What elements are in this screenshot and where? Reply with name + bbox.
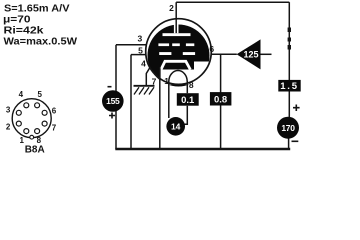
svg-text:8: 8: [189, 80, 194, 90]
svg-text:170: 170: [281, 123, 295, 133]
svg-text:3: 3: [6, 106, 11, 115]
svg-text:7: 7: [152, 77, 157, 87]
svg-text:125: 125: [243, 50, 258, 60]
svg-text:4: 4: [141, 59, 146, 69]
svg-text:1: 1: [19, 136, 24, 145]
svg-text:3: 3: [138, 33, 143, 43]
svg-text:7: 7: [52, 124, 57, 133]
svg-text:6: 6: [209, 44, 214, 54]
svg-text:0.1: 0.1: [181, 95, 195, 106]
svg-text:4: 4: [19, 90, 24, 99]
svg-text:155: 155: [106, 96, 120, 106]
svg-text:5: 5: [138, 46, 143, 56]
svg-text:1: 1: [164, 76, 169, 86]
svg-text:Wa=max.0.5W: Wa=max.0.5W: [4, 35, 78, 47]
svg-text:2: 2: [6, 123, 11, 132]
svg-text:14: 14: [171, 122, 181, 132]
svg-text:6: 6: [52, 106, 57, 115]
svg-text:0.8: 0.8: [214, 94, 227, 105]
svg-text:5: 5: [37, 90, 42, 99]
svg-text:1.5: 1.5: [280, 81, 299, 92]
svg-text:2: 2: [169, 3, 174, 13]
svg-text:B8A: B8A: [25, 145, 45, 156]
